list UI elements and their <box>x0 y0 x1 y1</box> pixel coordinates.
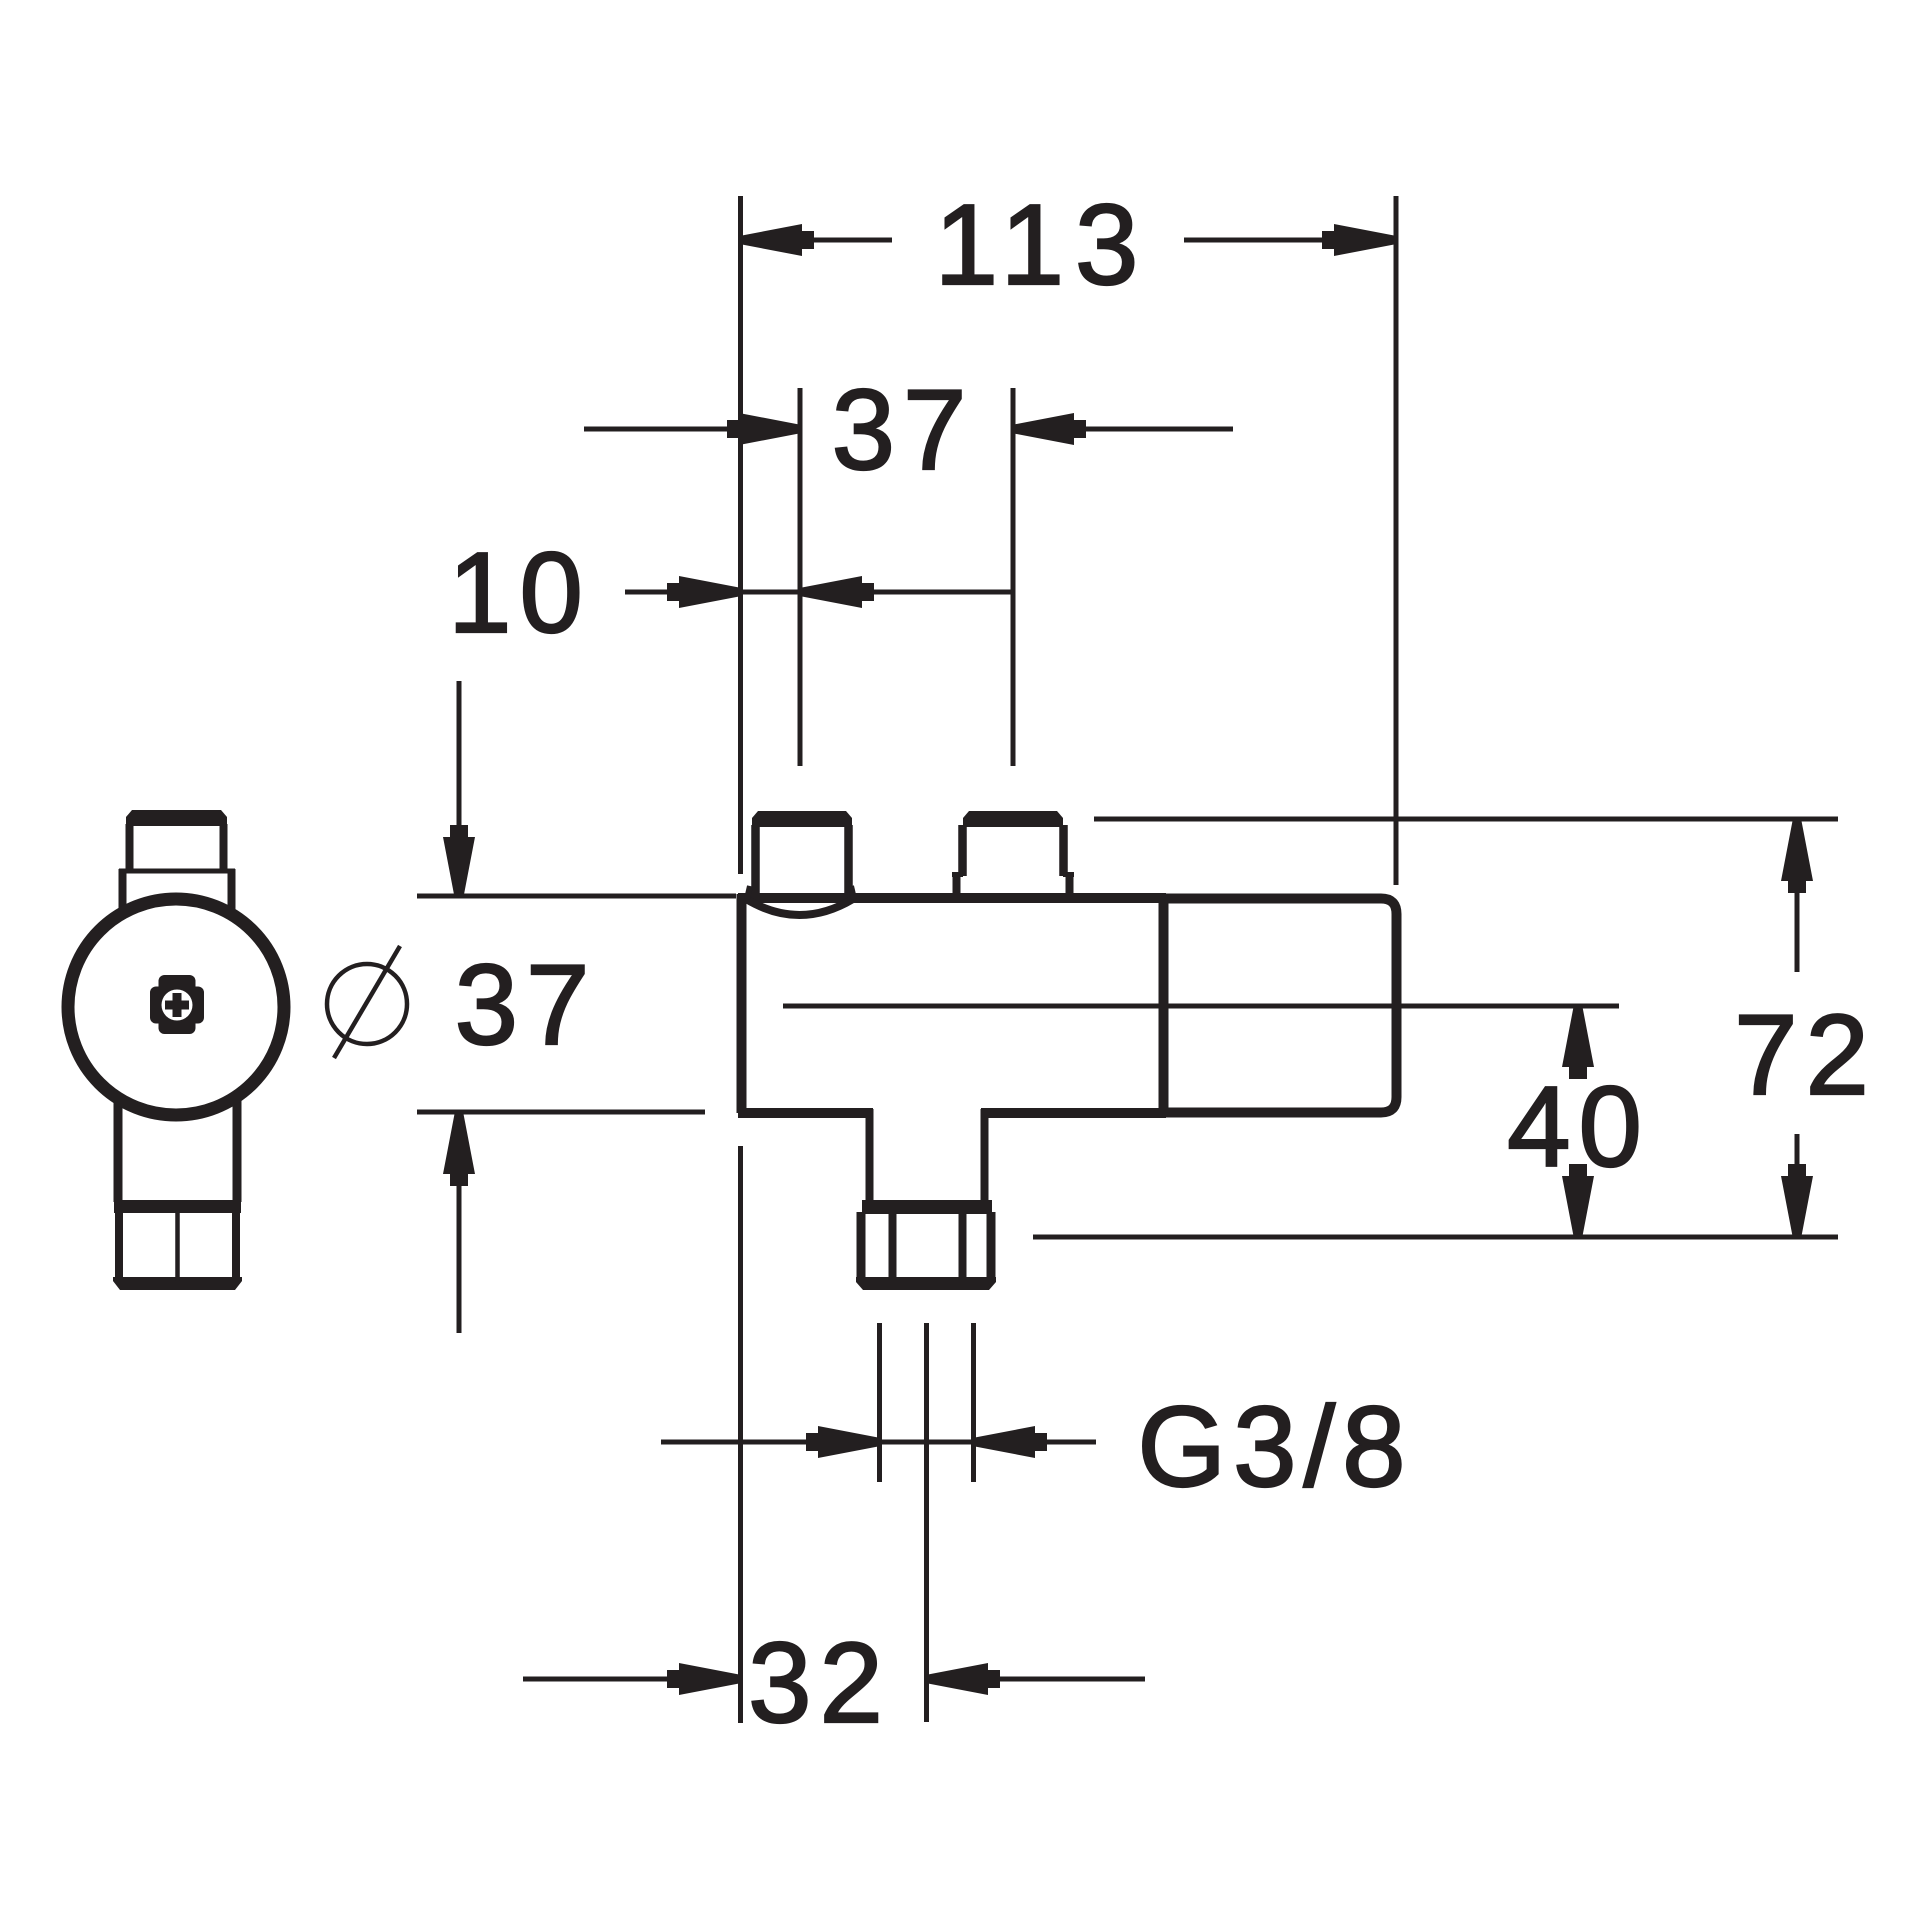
side view collar left wall <box>119 869 127 915</box>
side view top pipe left wall <box>126 824 134 872</box>
arrowhead 113 right <box>1322 224 1394 256</box>
svg-text:40: 40 <box>1507 1064 1650 1191</box>
arrowhead 10 right <box>802 576 874 608</box>
side view bottom pipe left wall <box>114 1090 123 1202</box>
outlet hex nut facet line right <box>959 1212 967 1282</box>
inlet 1 left base flare <box>747 886 750 899</box>
svg-text:32: 32 <box>748 1620 891 1747</box>
arrowhead 32 right <box>928 1663 1000 1695</box>
dimension line G3/8 <box>661 1440 808 1445</box>
outlet centerline extension (32) <box>924 1323 929 1722</box>
valve body left face <box>737 894 747 1113</box>
arrowhead 40 top <box>1562 1007 1594 1079</box>
side view step line <box>119 869 235 874</box>
valve body bottom edge right of outlet <box>981 1108 1166 1118</box>
arrowhead G3/8 left <box>806 1426 878 1458</box>
inlet 2 cap <box>963 811 1063 827</box>
side view bottom pipe right wall <box>233 1090 242 1202</box>
72 top reference line <box>1094 817 1838 822</box>
dimension line 37 (top) <box>584 427 732 432</box>
side view hex nut left face <box>115 1211 123 1281</box>
inlet 1 right wall <box>844 825 853 893</box>
inlet 1 cap <box>752 811 852 827</box>
dia37 bottom reference line <box>417 1110 705 1115</box>
side view hex nut top band <box>114 1200 241 1213</box>
divider between body and handle <box>1159 894 1169 1117</box>
valve body bottom edge left of outlet <box>738 1108 873 1118</box>
arrowhead 32 left <box>667 1663 739 1695</box>
72 / 40 bottom reference line <box>1033 1235 1838 1240</box>
arrowhead G3/8 right <box>975 1426 1047 1458</box>
arrowhead dia37 top <box>443 825 475 897</box>
outlet pipe right wall <box>981 1109 989 1205</box>
inlet 2 collar step right <box>1063 872 1074 877</box>
outlet hex nut bottom band <box>856 1277 996 1290</box>
outlet hex nut left face <box>857 1212 866 1282</box>
G3/8 thread extension lines <box>877 1323 882 1482</box>
valve body top edge <box>738 893 1166 903</box>
dimension line 113 <box>743 238 892 243</box>
arrowhead dia37 bottom <box>443 1114 475 1186</box>
outlet hex nut right face <box>987 1212 996 1282</box>
inlet 2 collar left wall <box>953 872 961 900</box>
dimension line dia 37 vertical <box>457 681 462 828</box>
outlet pipe left wall <box>866 1109 874 1205</box>
dome arc under inlet 1 <box>746 899 853 915</box>
svg-text:37: 37 <box>455 942 598 1069</box>
extension line: body left face (113 / 32) <box>738 196 743 874</box>
extension line: inlet 2 centerline (37 top) <box>1011 388 1016 766</box>
centerline of valve body (40 top ref) <box>783 1004 1619 1009</box>
arrowhead 113 left <box>742 224 814 256</box>
inlet 2 right wall <box>1059 825 1068 876</box>
inlet 2 left wall <box>958 825 967 876</box>
svg-text:113: 113 <box>935 182 1150 309</box>
arrowhead 72 bottom <box>1781 1164 1813 1236</box>
extension line: handle right face (113) <box>1394 196 1399 885</box>
diameter symbol <box>327 946 407 1058</box>
svg-text:G3/8: G3/8 <box>1137 1384 1412 1511</box>
arrowhead 72 top <box>1781 821 1813 893</box>
arrowhead 37 left <box>727 413 799 445</box>
arrowhead 10 left <box>667 576 739 608</box>
side view hex nut bottom band <box>113 1277 242 1290</box>
center screw cross <box>150 987 204 1024</box>
handle outline with rounded right corners <box>1164 899 1397 1113</box>
inlet 1 left wall <box>751 825 760 893</box>
extension line: inlet 1 centerline (37 top) <box>798 388 803 766</box>
center screw white ring <box>162 990 193 1021</box>
side view body circle <box>68 899 284 1115</box>
inlet 2 collar right wall <box>1066 872 1074 900</box>
arrowhead 40 bottom <box>1562 1164 1594 1236</box>
center screw inner plus <box>165 1001 189 1010</box>
inlet 2 collar step left <box>952 872 963 877</box>
outlet nut collar band <box>862 1200 992 1214</box>
dia37 top reference line <box>417 894 736 899</box>
side view top pipe right wall <box>220 824 228 872</box>
side view top cap <box>126 810 227 826</box>
outlet hex nut facet line left <box>889 1212 897 1282</box>
svg-text:37: 37 <box>832 367 975 494</box>
side view collar right wall <box>228 869 236 915</box>
arrowhead 37 right <box>1014 413 1086 445</box>
inlet 1 right base flare <box>851 886 854 899</box>
dimension line 32 <box>523 1677 670 1682</box>
side view hex nut middle facet line <box>175 1211 180 1281</box>
72 dimension line stubs <box>1795 889 1800 972</box>
svg-text:10: 10 <box>448 530 591 657</box>
dimension line 10 <box>625 590 672 595</box>
svg-text:72: 72 <box>1734 992 1877 1119</box>
side view hex nut right face <box>232 1211 240 1281</box>
